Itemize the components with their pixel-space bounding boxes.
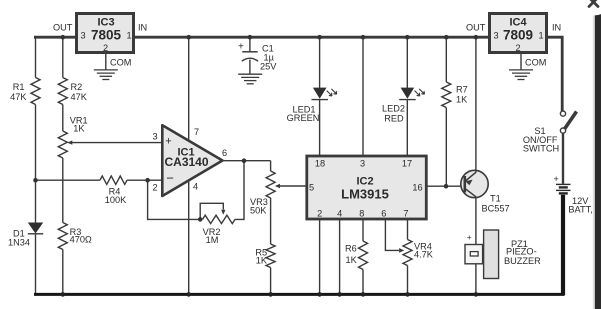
svg-text:R2: R2: [71, 82, 83, 92]
wire: top rail to IC2 pin 3: [362, 37, 364, 155]
wire: IC1 pin 7 supply from top rail: [188, 37, 190, 140]
svg-text:LED2: LED2: [382, 104, 405, 114]
wire: T1 collector down to PZ1: [475, 197, 477, 245]
svg-text:4.7K: 4.7K: [414, 250, 434, 260]
svg-text:+: +: [165, 136, 171, 148]
close button (white circle with X): [576, 0, 601, 16]
IC U2: IC2 LM3915: [307, 156, 427, 219]
ground: bottom 0V rail: [34, 293, 565, 296]
wire: left vertical rail (R1/D1 branch): [35, 37, 37, 294]
svg-text:2: 2: [515, 43, 520, 53]
svg-text:100K: 100K: [105, 195, 127, 205]
svg-text:7: 7: [194, 127, 199, 137]
wire: top rail to LED2 anode: [406, 37, 408, 88]
svg-text:+: +: [238, 42, 244, 53]
switch S1 ON/OFF: [560, 111, 576, 133]
svg-text:R7: R7: [456, 85, 468, 95]
wire: VR2 wiper loop: [200, 203, 223, 219]
wire: VR4 bottom to ground rail: [407, 266, 409, 295]
svg-text:OUT: OUT: [466, 23, 486, 33]
svg-text:7809: 7809: [503, 28, 533, 43]
svg-text:2: 2: [152, 183, 157, 193]
node: top rail junction 1: [61, 35, 66, 40]
wire: IC1 pin 4 to ground rail: [188, 181, 190, 294]
wire: switch to battery: [562, 133, 564, 184]
node: ground rail junction 1: [61, 292, 66, 297]
resistor R3: [58, 223, 67, 250]
ground: COM of IC4: [509, 70, 533, 80]
wire: top rail to T1 emitter: [475, 37, 477, 172]
wire: VR3 bottom to R5: [270, 198, 272, 244]
node: ground rail junction 3: [268, 292, 273, 297]
wire: IC2 pin 7 to VR4 top: [407, 220, 409, 240]
wire: VR2 right end to output feedback corner: [235, 161, 244, 220]
wire: R7 bottom to base node: [445, 108, 447, 187]
wire: IC2 pin 8 to R6: [362, 220, 364, 242]
diode D1 1N34: [28, 223, 43, 234]
svg-text:−: −: [166, 171, 174, 186]
wire: IC1 output pin 6 to node B: [223, 160, 271, 162]
svg-text:1K: 1K: [73, 123, 85, 133]
wire: R6 bottom to ground rail: [362, 270, 364, 295]
svg-text:16: 16: [412, 183, 422, 193]
wire: LED1 cathode to IC2 pin 18: [319, 100, 321, 155]
potentiometer VR1: [58, 131, 67, 158]
wire: IC2 pin 2 to ground: [319, 220, 321, 295]
node: top rail junction 2: [186, 35, 191, 40]
svg-text:GREEN: GREEN: [287, 113, 320, 123]
wire: VR3 wiper to IC2 pin 5: [277, 185, 307, 187]
svg-text:CA3140: CA3140: [164, 155, 208, 169]
resistor R1: [31, 78, 40, 105]
svg-text:2: 2: [317, 209, 322, 219]
resistor R4: [100, 176, 127, 184]
svg-text:1: 1: [538, 31, 543, 41]
svg-text:OUT: OUT: [53, 23, 73, 33]
svg-text:+: +: [554, 174, 559, 184]
svg-text:7805: 7805: [91, 28, 122, 43]
svg-text:1: 1: [126, 31, 131, 41]
svg-text:47K: 47K: [71, 92, 88, 102]
node: R7 / pin16 / base junction: [444, 184, 449, 189]
svg-text:1K: 1K: [456, 95, 468, 105]
node: ground rail junction 2: [186, 292, 191, 297]
node: top rail junction 3: [248, 35, 253, 40]
svg-text:BATT,: BATT,: [568, 204, 592, 214]
node: ground rail junction 4: [317, 292, 322, 297]
svg-text:7: 7: [403, 209, 408, 219]
svg-text:8: 8: [359, 209, 364, 219]
battery 12V BATT: [554, 174, 571, 194]
svg-text:COM: COM: [110, 58, 131, 68]
wire: top rail to LED1 anode: [319, 37, 321, 88]
wire: battery negative to ground rail (thick): [561, 195, 565, 295]
wire: IC2 pin 16 to T1 base: [427, 185, 465, 187]
wire: R5 bottom to ground rail: [270, 268, 272, 295]
svg-text:BUZZER: BUZZER: [504, 256, 541, 266]
svg-text:IN: IN: [552, 23, 561, 33]
node: ground rail junction 7: [405, 292, 410, 297]
resistor R6 1K: [359, 241, 368, 270]
svg-text:IN: IN: [138, 23, 147, 33]
ground: C1 negative: [238, 74, 262, 84]
potentiometer VR3 50K: [266, 171, 275, 198]
svg-text:50K: 50K: [250, 206, 267, 216]
wire: top rail to R7: [445, 37, 447, 82]
capacitor C1 1u 25V: [238, 37, 258, 74]
svg-text:1N34: 1N34: [8, 238, 30, 248]
node: top rail junction 8: [474, 35, 479, 40]
svg-text:18: 18: [315, 159, 325, 169]
wire: LED2 cathode to IC2 pin 17: [406, 100, 408, 155]
node: top rail junction 7: [444, 35, 449, 40]
svg-text:4: 4: [193, 182, 198, 192]
svg-text:3: 3: [152, 132, 157, 142]
transistor T1 BC557: [461, 170, 488, 197]
node: ground rail junction 5: [337, 292, 342, 297]
node: top rail junction 6: [405, 35, 410, 40]
svg-text:470Ω: 470Ω: [70, 235, 92, 245]
regulator IC3 7805: [77, 14, 134, 53]
svg-text:+: +: [467, 232, 472, 242]
wire: inverting input line from node A to IC1 pin 2: [36, 179, 162, 181]
svg-text:25V: 25V: [260, 62, 277, 72]
svg-text:47K: 47K: [10, 92, 27, 102]
wire: node B down to VR3: [270, 161, 272, 171]
node: ground rail junction 8: [474, 292, 479, 297]
svg-text:6: 6: [222, 148, 227, 158]
potentiometer VR2 1M (feedback): [203, 215, 236, 223]
node: IC1 pin2 / R4 / feedback junction: [145, 178, 150, 183]
LED LED1 GREEN: [312, 88, 337, 100]
wire: PZ1 bottom to ground rail: [475, 264, 477, 294]
wire: top rail between IC3 IN and IC4 OUT: [135, 36, 488, 39]
svg-text:T1: T1: [490, 194, 501, 204]
svg-text:4: 4: [337, 209, 342, 219]
potentiometer VR4 4.7K: [403, 240, 412, 266]
svg-text:3: 3: [493, 31, 498, 41]
node: VR2 left / wiper junction: [198, 217, 203, 222]
svg-text:COM: COM: [525, 58, 546, 68]
wire: IC2 pin 4 to ground: [339, 220, 341, 295]
wire: IC4 IN stub turning down to switch: [548, 37, 562, 111]
svg-text:1K: 1K: [256, 256, 268, 266]
svg-text:5: 5: [309, 183, 314, 193]
svg-text:BC557: BC557: [482, 204, 510, 214]
svg-text:1M: 1M: [206, 235, 219, 245]
wire: top +12V rail left segment (OUT of IC3): [34, 36, 75, 39]
wire: R2/VR1/R3 vertical branch: [62, 37, 64, 294]
svg-text:R1: R1: [13, 82, 25, 92]
wire: IC3 COM stem: [105, 54, 107, 70]
regulator IC4 7809: [490, 14, 547, 53]
svg-text:RED: RED: [384, 113, 404, 123]
node: top rail junction 4: [317, 35, 322, 40]
piezo buzzer PZ1: [465, 230, 499, 279]
ground: COM of IC3: [94, 70, 118, 80]
node B: IC1 output junction: [242, 158, 247, 163]
wire: VR1 wiper to IC1 pin 3: [69, 142, 162, 144]
node: top rail junction 5: [361, 35, 366, 40]
resistor R2: [58, 78, 67, 105]
wire: IC4 COM stem: [520, 54, 522, 70]
svg-text:6: 6: [381, 209, 386, 219]
node: ground rail junction 6: [361, 292, 366, 297]
svg-text:SWITCH: SWITCH: [523, 144, 559, 154]
wire: feedback from pin2 node down/right to VR2: [148, 180, 201, 219]
wire: IC2 pin 6 to VR4 wiper: [385, 220, 399, 251]
svg-text:3: 3: [80, 31, 85, 41]
svg-text:R6: R6: [345, 244, 357, 254]
svg-text:LM3915: LM3915: [341, 187, 389, 202]
svg-text:2: 2: [103, 43, 108, 53]
svg-text:1K: 1K: [346, 255, 358, 265]
svg-text:17: 17: [402, 159, 412, 169]
decorative right dark strip (page edge): [595, 0, 601, 309]
resistor R5 1K: [266, 244, 275, 268]
op-amp IC1 CA3140: [162, 125, 222, 196]
LED LED2 RED: [399, 88, 424, 100]
resistor R7 1K: [442, 82, 451, 108]
node A: R1/D1/R4 junction: [33, 178, 38, 183]
svg-text:3: 3: [360, 159, 365, 169]
